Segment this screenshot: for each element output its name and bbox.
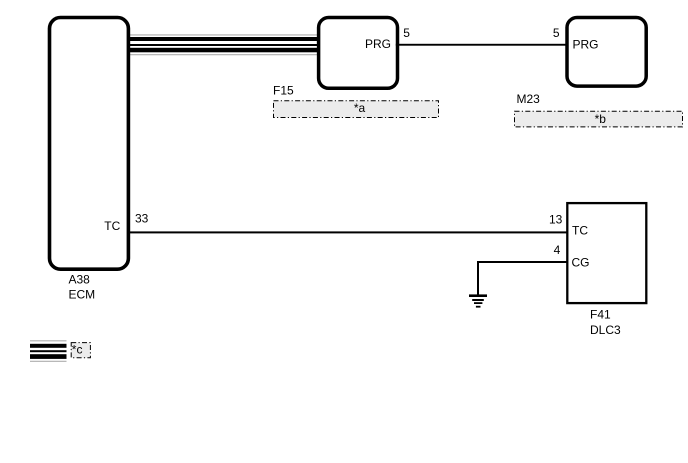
- svg-text:*b: *b: [595, 112, 607, 126]
- svg-text:13: 13: [549, 213, 563, 227]
- svg-text:5: 5: [403, 26, 410, 40]
- svg-text:TC: TC: [104, 219, 120, 233]
- svg-text:A38: A38: [69, 273, 91, 287]
- svg-text:33: 33: [135, 211, 149, 225]
- svg-text:ECM: ECM: [69, 288, 96, 302]
- svg-text:5: 5: [553, 26, 560, 40]
- svg-text:F15: F15: [273, 84, 294, 98]
- svg-text:F41: F41: [590, 307, 611, 321]
- svg-text:M23: M23: [517, 92, 541, 106]
- svg-text:4: 4: [554, 243, 561, 257]
- svg-text:PRG: PRG: [573, 38, 599, 52]
- svg-text:DLC3: DLC3: [590, 323, 621, 337]
- svg-text:*a: *a: [354, 101, 366, 115]
- svg-text:TC: TC: [572, 224, 588, 238]
- svg-text:*c: *c: [72, 342, 83, 356]
- svg-text:PRG: PRG: [365, 37, 391, 51]
- svg-text:CG: CG: [572, 256, 590, 270]
